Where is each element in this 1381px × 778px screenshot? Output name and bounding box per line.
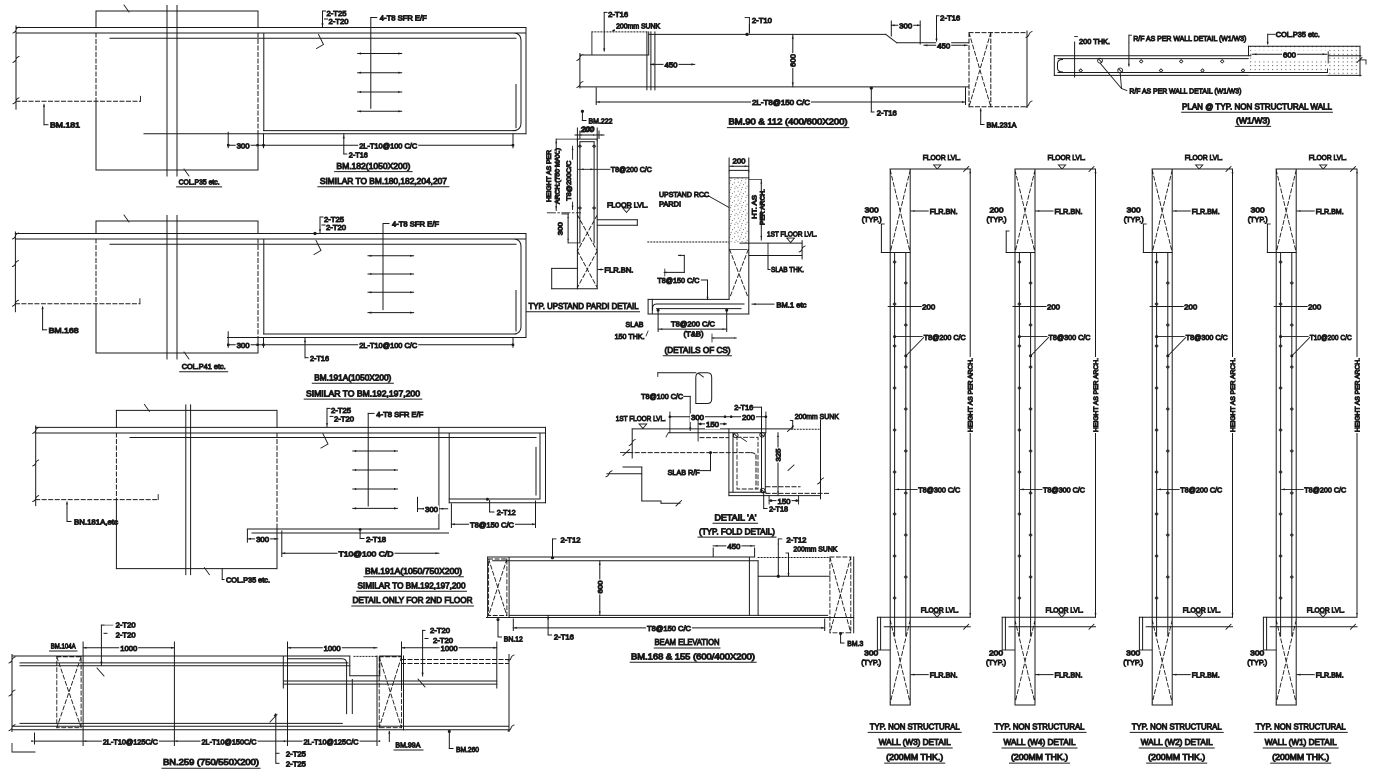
- svg-text:TYP. NON STRUCTURAL: TYP. NON STRUCTURAL: [995, 722, 1085, 731]
- svg-text:300: 300: [1127, 205, 1141, 214]
- svg-text:FLR.BM.: FLR.BM.: [1316, 207, 1344, 216]
- svg-text:200mm SUNK: 200mm SUNK: [793, 544, 837, 553]
- svg-text:200: 200: [990, 205, 1004, 214]
- svg-text:2-T12: 2-T12: [497, 508, 516, 517]
- svg-text:T8@300 C/C: T8@300 C/C: [1043, 486, 1086, 495]
- svg-text:WALL (W1) DETAIL: WALL (W1) DETAIL: [1265, 738, 1337, 747]
- svg-text:(TYP.): (TYP.): [1124, 215, 1144, 224]
- svg-text:2-T12: 2-T12: [786, 536, 806, 545]
- svg-text:2-T16: 2-T16: [608, 10, 628, 19]
- svg-text:(T&B): (T&B): [684, 329, 705, 338]
- svg-text:UPSTAND RCC: UPSTAND RCC: [659, 190, 710, 199]
- svg-text:T8@200 C/C: T8@200 C/C: [1180, 486, 1223, 495]
- svg-text:T10@200 C/C: T10@200 C/C: [1310, 333, 1352, 342]
- svg-text:BM.181: BM.181: [50, 121, 80, 130]
- svg-text:2-T16: 2-T16: [310, 354, 329, 363]
- svg-text:(TYP.): (TYP.): [862, 215, 882, 224]
- svg-text:300: 300: [1251, 205, 1265, 214]
- svg-text:BM.99A: BM.99A: [395, 740, 420, 749]
- svg-text:2-T20: 2-T20: [116, 620, 136, 629]
- svg-text:2L-T10@125C/C: 2L-T10@125C/C: [103, 737, 159, 746]
- svg-text:2-T12: 2-T12: [561, 536, 581, 545]
- svg-text:DETAIL ONLY FOR 2ND FLOOR: DETAIL ONLY FOR 2ND FLOOR: [353, 596, 473, 605]
- svg-text:1ST FLOOR LVL.: 1ST FLOOR LVL.: [767, 230, 817, 239]
- svg-text:FLOOR LVL.: FLOOR LVL.: [1048, 153, 1086, 162]
- svg-text:300: 300: [691, 413, 704, 422]
- svg-text:300: 300: [1250, 648, 1264, 657]
- svg-text:BM.90 & 112 (400/600X200): BM.90 & 112 (400/600X200): [729, 118, 848, 127]
- svg-text:BM.260: BM.260: [456, 745, 479, 754]
- svg-text:1000: 1000: [120, 644, 137, 653]
- svg-text:2-T20: 2-T20: [430, 626, 450, 635]
- svg-text:T8@200 C/C: T8@200 C/C: [611, 165, 653, 174]
- svg-text:150 THK.: 150 THK.: [615, 332, 645, 341]
- svg-text:COL.P35 etc.: COL.P35 etc.: [179, 177, 220, 186]
- svg-text:R/F AS PER WALL DETAIL (W1/W3): R/F AS PER WALL DETAIL (W1/W3): [1133, 34, 1246, 43]
- svg-text:(TYP.): (TYP.): [986, 658, 1006, 667]
- svg-text:4-T8 SFR E/F: 4-T8 SFR E/F: [392, 220, 439, 229]
- svg-text:(TYP.): (TYP.): [1123, 658, 1143, 667]
- svg-text:SIMILAR TO BM.192,197,200: SIMILAR TO BM.192,197,200: [306, 389, 420, 398]
- svg-text:PLAN @ TYP. NON STRUCTURAL WAL: PLAN @ TYP. NON STRUCTURAL WALL: [1182, 102, 1332, 111]
- svg-text:BM.191A(1050/750X200): BM.191A(1050/750X200): [365, 567, 462, 576]
- svg-text:TYP. UPSTAND PARDI DETAIL: TYP. UPSTAND PARDI DETAIL: [529, 302, 639, 311]
- svg-text:600: 600: [1283, 51, 1296, 60]
- svg-text:2L-T10@150C/C: 2L-T10@150C/C: [202, 737, 258, 746]
- svg-text:WALL (W2) DETAIL: WALL (W2) DETAIL: [1141, 738, 1213, 747]
- svg-text:HEIGHT AS PER ARCH.: HEIGHT AS PER ARCH.: [1093, 358, 1100, 432]
- svg-text:2L-T10@100 C/C: 2L-T10@100 C/C: [359, 141, 418, 150]
- svg-text:2-T16: 2-T16: [734, 403, 753, 412]
- svg-text:300: 300: [1126, 648, 1140, 657]
- svg-text:300: 300: [425, 505, 438, 514]
- svg-text:(DETAILS OF CS): (DETAILS OF CS): [665, 346, 731, 355]
- svg-text:SIMILAR TO BM.192,197,200: SIMILAR TO BM.192,197,200: [358, 582, 466, 591]
- svg-text:T8@300 C/C: T8@300 C/C: [918, 486, 961, 495]
- svg-text:T8@150 C/C: T8@150 C/C: [647, 624, 692, 633]
- svg-text:600: 600: [597, 580, 604, 593]
- svg-text:T8@150 C/C: T8@150 C/C: [657, 276, 700, 285]
- svg-text:(200MM THK.): (200MM THK.): [1011, 753, 1068, 762]
- svg-text:(TYP.): (TYP.): [861, 658, 881, 667]
- svg-text:300: 300: [899, 22, 912, 31]
- svg-text:600: 600: [789, 54, 798, 67]
- svg-text:SLAB: SLAB: [626, 320, 644, 329]
- svg-text:PARDI: PARDI: [659, 199, 681, 208]
- svg-text:200: 200: [742, 413, 755, 422]
- svg-text:2-T16: 2-T16: [940, 14, 960, 23]
- svg-text:FLR.BN.: FLR.BN.: [1055, 670, 1083, 679]
- svg-text:2-T18: 2-T18: [769, 505, 788, 514]
- svg-text:200 THK.: 200 THK.: [1079, 37, 1110, 46]
- svg-text:BN.181A,etc: BN.181A,etc: [74, 517, 118, 526]
- svg-text:FLR.BN.: FLR.BN.: [1055, 207, 1083, 216]
- svg-text:2-T20: 2-T20: [329, 17, 349, 26]
- svg-text:(TYP.): (TYP.): [1248, 215, 1268, 224]
- svg-text:BM.1 etc: BM.1 etc: [776, 300, 806, 309]
- svg-text:TYP. NON STRUCTURAL: TYP. NON STRUCTURAL: [870, 722, 960, 731]
- svg-text:2-T20: 2-T20: [334, 414, 354, 423]
- svg-text:1ST FLOOR LVL.: 1ST FLOOR LVL.: [616, 414, 666, 423]
- svg-text:2-T10: 2-T10: [752, 16, 772, 25]
- svg-text:200mm SUNK: 200mm SUNK: [795, 412, 839, 421]
- svg-text:HT. AS: HT. AS: [751, 194, 758, 219]
- svg-text:300: 300: [256, 535, 269, 544]
- svg-text:T8@200C/C: T8@200C/C: [566, 161, 573, 201]
- svg-text:HEIGHT AS PER ARCH.: HEIGHT AS PER ARCH.: [968, 358, 975, 432]
- svg-text:BM.3: BM.3: [847, 639, 863, 648]
- svg-text:(200MM THK.): (200MM THK.): [886, 753, 943, 762]
- svg-text:300: 300: [237, 341, 250, 350]
- svg-text:SLAB R/F: SLAB R/F: [668, 468, 700, 477]
- svg-text:300: 300: [865, 205, 879, 214]
- svg-text:ARCH.(750 MAX.): ARCH.(750 MAX.): [554, 148, 561, 204]
- svg-text:HEIGHT AS PER ARCH.: HEIGHT AS PER ARCH.: [1355, 358, 1362, 432]
- svg-text:2-T16: 2-T16: [349, 151, 368, 160]
- svg-text:200: 200: [581, 125, 594, 134]
- svg-text:T8@100 C/C: T8@100 C/C: [641, 392, 684, 401]
- svg-text:WALL (W4) DETAIL: WALL (W4) DETAIL: [1004, 738, 1076, 747]
- svg-text:BM.191A(1050X200): BM.191A(1050X200): [314, 374, 391, 383]
- svg-text:T8@200 C/C: T8@200 C/C: [1304, 486, 1347, 495]
- svg-text:T8@300 C/C: T8@300 C/C: [1186, 333, 1229, 342]
- svg-text:2-T18: 2-T18: [366, 535, 386, 544]
- svg-text:2-T20: 2-T20: [326, 223, 346, 232]
- svg-text:FLR.BM.: FLR.BM.: [1192, 670, 1220, 679]
- svg-text:T8@200 C/C: T8@200 C/C: [924, 333, 967, 342]
- svg-text:FLR.BN.: FLR.BN.: [930, 207, 958, 216]
- svg-text:T8@150 C/C: T8@150 C/C: [470, 520, 515, 529]
- svg-text:PER ARCH.: PER ARCH.: [760, 189, 767, 225]
- svg-text:COL.P41 etc.: COL.P41 etc.: [182, 362, 226, 371]
- svg-text:(TYP. FOLD DETAIL): (TYP. FOLD DETAIL): [699, 527, 775, 536]
- svg-text:SIMILAR TO BM.180,182,204,207: SIMILAR TO BM.180,182,204,207: [320, 177, 447, 186]
- svg-text:450: 450: [665, 61, 678, 70]
- svg-text:FLR.BM.: FLR.BM.: [1192, 207, 1220, 216]
- svg-text:TYP. NON STRUCTURAL: TYP. NON STRUCTURAL: [1132, 722, 1222, 731]
- svg-text:300: 300: [237, 141, 250, 150]
- svg-text:T8@300 C/C: T8@300 C/C: [1049, 333, 1092, 342]
- svg-text:BM.104A: BM.104A: [51, 642, 76, 651]
- svg-text:4-T8 SFR E/F: 4-T8 SFR E/F: [380, 14, 427, 23]
- svg-text:450: 450: [937, 42, 950, 51]
- svg-text:FLOOR LVL.: FLOOR LVL.: [1309, 153, 1347, 162]
- svg-text:150: 150: [706, 420, 719, 429]
- svg-text:200: 200: [1184, 303, 1197, 312]
- svg-text:FLOOR LVL.: FLOOR LVL.: [1185, 153, 1223, 162]
- svg-text:FLR.BM.: FLR.BM.: [1316, 670, 1344, 679]
- svg-text:200: 200: [989, 648, 1003, 657]
- svg-text:BM.231A: BM.231A: [987, 120, 1017, 129]
- svg-text:2L-T8@150 C/C: 2L-T8@150 C/C: [752, 98, 811, 107]
- svg-text:1000: 1000: [441, 644, 458, 653]
- svg-text:R/F AS PER WALL DETAIL (W1/W3): R/F AS PER WALL DETAIL (W1/W3): [1129, 87, 1241, 96]
- svg-text:200: 200: [1308, 303, 1321, 312]
- svg-text:FLOOR LVL.: FLOOR LVL.: [923, 153, 961, 162]
- svg-text:200mm SUNK: 200mm SUNK: [616, 21, 660, 30]
- svg-text:SLAB THK.: SLAB THK.: [771, 265, 804, 274]
- svg-text:2-T20: 2-T20: [116, 630, 136, 639]
- svg-text:COL.P35 etc.: COL.P35 etc.: [1276, 30, 1320, 39]
- svg-text:FLR.BN.: FLR.BN.: [604, 265, 633, 274]
- svg-text:1000: 1000: [324, 644, 341, 653]
- svg-text:(TYP.): (TYP.): [987, 215, 1007, 224]
- svg-text:TYP. NON STRUCTURAL: TYP. NON STRUCTURAL: [1256, 722, 1346, 731]
- svg-text:200: 200: [1047, 303, 1060, 312]
- svg-text:300: 300: [558, 222, 565, 235]
- svg-text:2-T20: 2-T20: [433, 636, 453, 645]
- svg-text:200: 200: [733, 157, 746, 166]
- svg-text:300: 300: [864, 648, 878, 657]
- svg-text:(200MM THK.): (200MM THK.): [1148, 753, 1205, 762]
- svg-text:BM.168 & 155 (600/400X200): BM.168 & 155 (600/400X200): [631, 652, 755, 661]
- svg-text:HEIGHT AS PER: HEIGHT AS PER: [546, 150, 553, 202]
- svg-text:2-T16: 2-T16: [877, 109, 897, 118]
- svg-text:2-T25: 2-T25: [286, 759, 306, 768]
- svg-text:FLR.BN.: FLR.BN.: [930, 670, 958, 679]
- svg-text:325: 325: [776, 448, 783, 461]
- svg-text:2L-T10@100 C/C: 2L-T10@100 C/C: [359, 341, 418, 350]
- svg-text:BM.168: BM.168: [49, 326, 79, 335]
- svg-text:BN.12: BN.12: [504, 634, 523, 643]
- svg-text:BM.182(1050X200): BM.182(1050X200): [336, 162, 410, 171]
- svg-text:(W1/W3): (W1/W3): [1236, 116, 1270, 125]
- svg-text:T8@200 C/C: T8@200 C/C: [671, 319, 716, 328]
- svg-text:WALL (W3) DETAIL: WALL (W3) DETAIL: [879, 738, 951, 747]
- svg-text:2-T25: 2-T25: [286, 749, 306, 758]
- svg-text:4-T8 SFR E/F: 4-T8 SFR E/F: [376, 410, 423, 419]
- svg-text:2-T16: 2-T16: [554, 632, 574, 641]
- svg-text:T10@100 C/D: T10@100 C/D: [339, 549, 395, 558]
- svg-text:HEIGHT AS PER ARCH.: HEIGHT AS PER ARCH.: [1230, 358, 1237, 432]
- svg-text:BN.259 (750/550X200): BN.259 (750/550X200): [163, 758, 259, 767]
- svg-text:200: 200: [922, 303, 935, 312]
- svg-text:BEAM ELEVATION: BEAM ELEVATION: [655, 638, 720, 647]
- svg-text:(200MM THK.): (200MM THK.): [1272, 753, 1329, 762]
- svg-text:(TYP.): (TYP.): [1247, 658, 1267, 667]
- svg-text:DETAIL 'A': DETAIL 'A': [715, 513, 757, 522]
- svg-text:2L-T10@125C/C: 2L-T10@125C/C: [304, 737, 360, 746]
- svg-text:450: 450: [727, 542, 740, 551]
- svg-text:COL.P35 etc.: COL.P35 etc.: [226, 576, 270, 585]
